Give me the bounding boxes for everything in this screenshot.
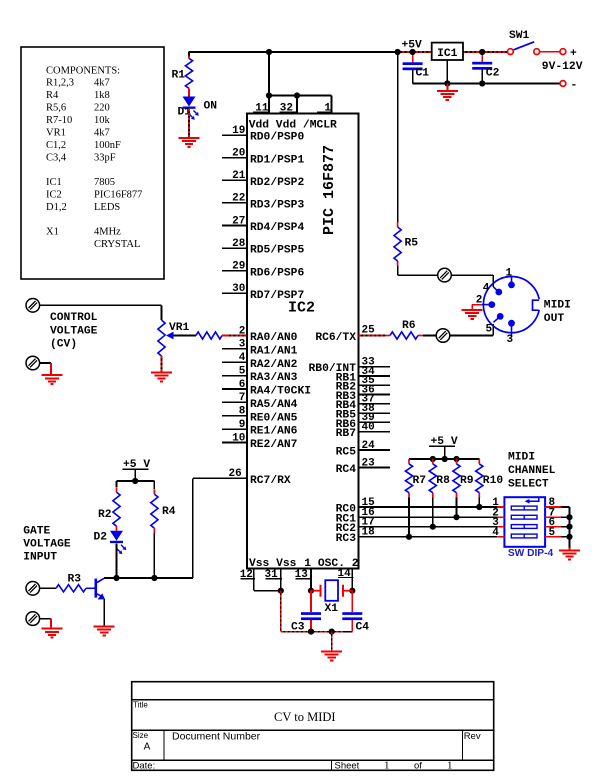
svg-text:A: A: [144, 741, 151, 752]
pin 13 stub: [310, 569, 312, 591]
DIP pin 6 wire: [561, 526, 570, 528]
pin 38 lead: [359, 412, 391, 414]
wire gnd bus left: [281, 631, 311, 633]
svg-text:(CV): (CV): [50, 339, 77, 351]
svg-text:R3: R3: [68, 573, 82, 585]
svg-text:D1,2: D1,2: [46, 202, 67, 213]
wire R7 to line: [408, 498, 410, 537]
svg-text:MIDI: MIDI: [544, 300, 571, 312]
wire R4 top drop: [153, 481, 155, 489]
terminal battery plus: [560, 49, 566, 55]
pin 24 lead: [359, 449, 391, 451]
DIP pin 1 lead: [497, 506, 504, 508]
svg-text:4: 4: [492, 527, 499, 539]
wire emitter to ground: [103, 599, 105, 626]
svg-text:PIC16F877: PIC16F877: [94, 190, 142, 201]
connector MIDI pin4: [438, 268, 452, 282]
wire top pin bus: [269, 95, 332, 97]
DIP pin 7 wire: [561, 516, 570, 518]
svg-text:of: of: [414, 761, 422, 772]
wire DIN5 rise: [492, 324, 494, 336]
svg-text:21: 21: [232, 170, 246, 182]
junction rail R8: [430, 456, 436, 462]
svg-text:C1: C1: [416, 68, 430, 80]
svg-text:1: 1: [506, 267, 513, 279]
junction rail +5V: [442, 456, 448, 462]
components list box: [21, 47, 164, 279]
terminal SW1 left: [508, 49, 514, 55]
svg-text:RD7/PSP7: RD7/PSP7: [250, 290, 304, 302]
svg-text:27: 27: [232, 215, 245, 227]
DIP pin 8 lead: [545, 506, 561, 508]
wire conn to DIN5: [450, 335, 493, 337]
svg-text:100nF: 100nF: [94, 140, 121, 151]
svg-text:RC7/RX: RC7/RX: [250, 475, 291, 487]
svg-text:R8: R8: [436, 475, 450, 487]
svg-text:RA4/T0CKI: RA4/T0CKI: [250, 386, 311, 398]
resistor R9: [453, 459, 460, 498]
pin 15 lead wire: [359, 506, 498, 508]
junction DIP 5: [566, 534, 572, 540]
junction pin11: [266, 92, 272, 98]
svg-text:R5: R5: [405, 238, 419, 250]
wire R5 corner to conn: [398, 274, 438, 276]
svg-text:RD6/PSP6: RD6/PSP6: [250, 267, 304, 279]
wire Vss down: [280, 591, 282, 632]
svg-text:CRYSTAL: CRYSTAL: [94, 239, 140, 250]
svg-text:10k: 10k: [94, 115, 111, 126]
wire +5V gate bar: [122, 468, 148, 470]
svg-text:1: 1: [447, 760, 453, 772]
junction X1 left: [308, 588, 314, 594]
svg-text:X1: X1: [46, 227, 59, 238]
pin 37 lead: [359, 403, 391, 405]
wire C3 bottom lead: [310, 620, 312, 632]
svg-text:R1,2,3: R1,2,3: [46, 78, 74, 89]
svg-text:CONTROL: CONTROL: [50, 312, 98, 324]
pin 2 lead: [227, 335, 248, 337]
svg-text:VR1: VR1: [46, 128, 66, 139]
svg-text:RB7: RB7: [336, 428, 357, 440]
svg-text:LEDS: LEDS: [94, 202, 120, 213]
svg-text:Title: Title: [133, 701, 148, 710]
svg-text:28: 28: [232, 238, 246, 250]
wire CV gnd drop: [50, 363, 52, 375]
svg-text:RA5/AN4: RA5/AN4: [250, 399, 298, 411]
pin 3 lead: [222, 348, 247, 350]
pin 21 lead: [222, 179, 247, 181]
svg-text:RC3: RC3: [336, 533, 357, 545]
capacitor C4: [342, 612, 369, 633]
pin 34 lead: [359, 375, 391, 377]
svg-text:R4: R4: [162, 506, 176, 518]
svg-text:7: 7: [239, 392, 246, 404]
svg-text:RD3/PSP3: RD3/PSP3: [250, 200, 304, 212]
svg-text:8: 8: [239, 406, 246, 418]
pin 40 lead: [359, 431, 391, 433]
svg-text:IC1: IC1: [46, 177, 62, 188]
ground Q1 emitter: [94, 626, 115, 635]
pin 6 lead: [222, 388, 247, 390]
wire gate gnd lead: [40, 618, 51, 620]
ground CV input: [42, 375, 63, 384]
pin 33 lead: [359, 366, 391, 368]
svg-text:33pF: 33pF: [94, 152, 116, 163]
svg-text:4k7: 4k7: [94, 128, 110, 139]
wire DIN2 gnd drop: [471, 305, 473, 310]
svg-text:RE2/AN7: RE2/AN7: [250, 439, 298, 451]
pin 28 lead: [222, 247, 247, 249]
components list text: [46, 66, 142, 251]
svg-text:29: 29: [232, 261, 245, 273]
junction D2 node: [113, 575, 119, 581]
wire pin12 elbow: [254, 590, 281, 592]
pin 11 stub: [268, 96, 270, 114]
svg-text:VOLTAGE: VOLTAGE: [50, 325, 98, 337]
svg-text:RE0/AN5: RE0/AN5: [250, 412, 298, 424]
junction C2 bottom: [479, 80, 485, 86]
wire C1 top lead: [412, 52, 414, 62]
pin 35 lead: [359, 384, 391, 386]
wire gate in lead: [40, 587, 56, 589]
wire gnd bus right: [332, 631, 345, 633]
wire DIN2 red lead: [472, 304, 482, 306]
DIN connector J1 MIDI OUT: [482, 277, 542, 337]
pin 31 stub: [280, 569, 282, 591]
svg-text:C1,2: C1,2: [46, 140, 66, 151]
wire R10 to line: [478, 498, 480, 507]
svg-text:5: 5: [239, 365, 246, 377]
resistor R1: [185, 58, 192, 88]
wire R2 top drop: [116, 481, 118, 487]
svg-text:IC1: IC1: [437, 48, 458, 60]
svg-text:Size: Size: [133, 731, 149, 740]
svg-text:R2: R2: [98, 509, 112, 521]
pin 5 lead: [222, 375, 247, 377]
junction R4 node: [151, 575, 157, 581]
svg-text:22: 22: [232, 193, 245, 205]
svg-text:VR1: VR1: [169, 322, 190, 334]
wire conn to DIN4: [451, 274, 493, 276]
svg-text:26: 26: [228, 468, 241, 480]
pin 17 lead wire: [359, 526, 498, 528]
svg-text:PIC 16F877: PIC 16F877: [321, 145, 338, 235]
svg-text:9: 9: [239, 419, 246, 431]
pin 20 lead: [222, 157, 247, 159]
svg-text:4: 4: [483, 282, 490, 294]
svg-text:R5,6: R5,6: [46, 103, 66, 114]
capacitor C1: [403, 62, 430, 79]
svg-text:18: 18: [362, 527, 376, 539]
svg-text:SW1: SW1: [509, 30, 530, 42]
wire IC1 ground stem: [446, 84, 448, 92]
ground DIP switch: [559, 551, 580, 560]
pin 30 lead: [222, 292, 247, 294]
junction DIP 6: [566, 524, 572, 530]
wire C2 top lead: [481, 52, 483, 62]
svg-text:SW DIP-4: SW DIP-4: [508, 548, 554, 559]
wire +5V rail to IC1: [398, 51, 432, 53]
svg-text:Date:: Date:: [133, 761, 156, 772]
svg-text:4k7: 4k7: [94, 78, 110, 89]
junction pin32: [294, 92, 300, 98]
wire DIP gnd stem: [569, 548, 571, 551]
svg-text:6: 6: [239, 379, 246, 391]
junction Vss join: [278, 588, 284, 594]
junction rail R9: [453, 456, 459, 462]
regulator IC1: [432, 43, 463, 60]
svg-text:X1: X1: [325, 603, 339, 615]
junction C1 top: [410, 49, 416, 55]
svg-text:Vdd Vdd /MCLR: Vdd Vdd /MCLR: [249, 120, 337, 132]
svg-text:1k8: 1k8: [94, 90, 110, 101]
wire rail to R1: [188, 52, 190, 58]
wire R1 top stub: [188, 56, 190, 59]
svg-text:RE1/AN6: RE1/AN6: [250, 426, 298, 438]
resistor wiper series: [196, 332, 222, 339]
pin 14 stub: [351, 569, 353, 591]
wire +5V rail: [189, 51, 398, 53]
svg-text:3: 3: [239, 339, 246, 351]
LED D1: [183, 97, 199, 120]
svg-text:20: 20: [232, 148, 245, 160]
wire D2 to node: [116, 543, 118, 578]
pin 7 lead: [222, 401, 247, 403]
connector CV input: [26, 299, 40, 313]
svg-text:7805: 7805: [94, 177, 115, 188]
wire gnd bus end: [345, 631, 352, 633]
wire +5V dip stem: [444, 446, 446, 459]
svg-text:24: 24: [362, 440, 376, 452]
wire wiper lead red: [222, 335, 227, 337]
junction +5V chip feed: [266, 49, 272, 55]
wire pin11 feed: [268, 52, 270, 96]
resistor R6: [385, 332, 423, 339]
svg-text:COMPONENTS:: COMPONENTS:: [46, 66, 120, 77]
svg-text:RA0/AN0: RA0/AN0: [250, 332, 298, 344]
IC IC2 PIC16F877 body: [247, 114, 359, 569]
svg-text:RD1/PSP1: RD1/PSP1: [250, 154, 304, 166]
terminal SW1 right: [534, 49, 540, 55]
wire +5V to R5: [397, 52, 399, 222]
DIP pin 3 lead: [497, 526, 504, 528]
wire C3 top lead: [310, 591, 312, 613]
svg-text:R7-10: R7-10: [46, 115, 72, 126]
pin 32 stub: [296, 96, 298, 114]
pin 12 stub: [253, 569, 255, 591]
pin 16 lead wire: [359, 516, 498, 518]
switch SW1 lever: [514, 42, 535, 50]
resistor R8: [429, 459, 436, 498]
pin 9 lead: [222, 428, 247, 430]
svg-text:GATE: GATE: [23, 526, 50, 538]
pin 18 lead wire: [359, 536, 498, 538]
wire C1 bottom lead: [412, 70, 414, 83]
svg-text:MIDI: MIDI: [508, 452, 535, 464]
wire SW1 to plus: [540, 51, 560, 53]
svg-text:RC5: RC5: [336, 446, 357, 458]
ground gate input: [42, 629, 63, 638]
transistor Q1: [95, 578, 106, 599]
wire node to pin26: [192, 478, 194, 578]
junction R10: [476, 504, 482, 510]
svg-text:RA1/AN1: RA1/AN1: [250, 345, 298, 357]
svg-text:5: 5: [486, 323, 493, 335]
junction DIP 7: [566, 514, 572, 520]
wire gate rail: [117, 480, 155, 482]
svg-text:INPUT: INPUT: [23, 551, 57, 563]
wire collector node: [104, 577, 193, 579]
svg-text:3: 3: [507, 334, 514, 346]
wire R9 to line: [456, 498, 458, 518]
svg-text:RD4/PSP4: RD4/PSP4: [250, 222, 304, 234]
wire +5V dip bar: [429, 445, 455, 447]
wire VR1 to ground: [161, 356, 163, 372]
DIP pin 2 lead: [497, 516, 504, 518]
resistor R3: [56, 585, 86, 592]
resistor R10: [476, 459, 483, 498]
wire 0V rail: [413, 83, 560, 85]
resistor R7: [405, 459, 412, 498]
DIP pin 4 lead: [497, 536, 504, 538]
junction X1 right: [349, 588, 355, 594]
pin 26 lead: [193, 477, 247, 479]
svg-text:9V-12V: 9V-12V: [542, 61, 583, 73]
svg-text:RD0/PSP0: RD0/PSP0: [250, 132, 304, 144]
connector gate ground: [26, 612, 40, 626]
svg-text:RC6/TX: RC6/TX: [315, 332, 356, 344]
wire base lead: [86, 587, 95, 589]
connector CV ground: [26, 356, 40, 370]
junction +5V R5 feed: [395, 49, 401, 55]
svg-text:R9: R9: [460, 475, 474, 487]
potentiometer VR1 wiper: [166, 332, 196, 340]
title block frame: [132, 682, 494, 771]
wire DIP common: [569, 507, 571, 548]
svg-text:-: -: [571, 80, 578, 92]
svg-text:IC2: IC2: [288, 300, 315, 317]
svg-text:OUT: OUT: [544, 313, 565, 325]
svg-text:4MHz: 4MHz: [94, 227, 121, 238]
DIP pin 8 wire: [561, 506, 570, 508]
svg-text:Document Number: Document Number: [172, 731, 261, 743]
pin 39 lead: [359, 421, 391, 423]
wire R6 to conn: [423, 335, 436, 337]
wire gate gnd drop: [50, 619, 52, 629]
wire R1 to D1: [188, 88, 190, 96]
svg-text:D2: D2: [94, 532, 108, 544]
wire VR1 top drop: [161, 305, 163, 320]
svg-text:R6: R6: [402, 320, 416, 332]
capacitor C2: [472, 62, 499, 80]
resistor R5: [394, 222, 401, 266]
wire D1 to ground: [188, 109, 190, 138]
junction IC1 ground: [444, 80, 450, 86]
svg-text:RC4: RC4: [336, 464, 357, 476]
DIP switch SW DIP-4: [504, 497, 545, 547]
junction R7: [406, 534, 412, 540]
svg-text:IC2: IC2: [46, 190, 62, 201]
pin 27 lead: [222, 225, 247, 227]
svg-text:RA3/AN3: RA3/AN3: [250, 372, 298, 384]
svg-text:CV to MIDI: CV to MIDI: [274, 710, 336, 724]
junction gate +5V: [132, 478, 138, 484]
ground IC1: [437, 91, 458, 100]
ground MIDI pin2: [462, 310, 483, 319]
svg-text:RD2/PSP2: RD2/PSP2: [250, 177, 304, 189]
potentiometer VR1 element: [158, 320, 165, 356]
wire CV to VR1 top: [40, 304, 162, 306]
wire R4 to node: [153, 533, 155, 578]
terminal battery minus: [560, 81, 566, 87]
pin 23 lead: [359, 467, 391, 469]
svg-text:4: 4: [239, 352, 246, 364]
svg-text:40: 40: [362, 421, 375, 433]
wire C4 top lead: [351, 591, 353, 613]
junction R9: [453, 514, 459, 520]
pin 22 lead: [222, 202, 247, 204]
pin 19 lead: [222, 134, 247, 136]
svg-text:25: 25: [362, 324, 376, 336]
DIP pin 5 wire: [561, 536, 570, 538]
crystal X1: [311, 580, 352, 601]
wire R5 to corner: [397, 266, 399, 275]
wire R8 to line: [432, 498, 434, 527]
pin 25 lead: [359, 335, 386, 337]
connector gate input: [26, 582, 40, 596]
svg-text:SELECT: SELECT: [508, 479, 549, 491]
svg-text:RA2/AN2: RA2/AN2: [250, 359, 298, 371]
pin 1 stub: [331, 96, 333, 114]
resistor R2: [113, 487, 120, 531]
svg-text:220: 220: [94, 103, 110, 114]
wire IC1 to SW1: [463, 51, 508, 53]
capacitor C3: [291, 612, 321, 633]
wire crystal gnd stem: [331, 632, 333, 652]
svg-text:C3,4: C3,4: [46, 152, 67, 163]
wire IC1 ground pin: [446, 60, 448, 84]
wire CV gnd lead: [40, 362, 51, 364]
wire pullup rail: [409, 458, 479, 460]
pin 10 lead: [222, 441, 247, 443]
ground D1: [179, 138, 200, 147]
svg-text:ON: ON: [204, 101, 218, 113]
svg-text:30: 30: [232, 283, 245, 295]
ground crystal: [321, 651, 342, 660]
pin 36 lead: [359, 394, 391, 396]
svg-text:R1: R1: [172, 70, 186, 82]
wire +5V gate stem: [134, 469, 136, 481]
pin 29 lead: [222, 270, 247, 272]
wire C2 bottom lead: [481, 70, 483, 84]
DIP pin 7 lead: [545, 516, 561, 518]
svg-text:R10: R10: [483, 475, 504, 487]
svg-text:RD5/PSP5: RD5/PSP5: [250, 245, 304, 257]
junction gnd stem: [329, 629, 335, 635]
svg-text:10: 10: [232, 432, 245, 444]
junction C2 top: [479, 49, 485, 55]
ground VR1: [151, 372, 172, 381]
wire C4 bottom lead: [351, 620, 353, 632]
svg-text:19: 19: [232, 125, 245, 137]
svg-text:C2: C2: [486, 68, 500, 80]
svg-text:C4: C4: [356, 622, 370, 634]
junction C3 bottom: [308, 629, 314, 635]
svg-text:Rev: Rev: [464, 731, 481, 742]
svg-text:5: 5: [549, 527, 556, 539]
svg-text:1: 1: [384, 760, 390, 772]
DIP pin 6 lead: [545, 526, 561, 528]
